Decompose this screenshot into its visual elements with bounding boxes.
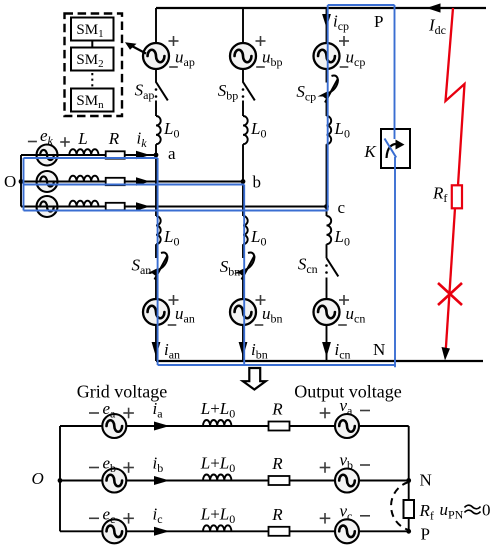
svg-text:ek: ek: [40, 126, 54, 148]
node a: [154, 153, 159, 158]
wire bp to coil: [242, 101, 244, 117]
inductor L grid a: [69, 149, 98, 155]
svg-text:ib: ib: [153, 454, 164, 476]
voltage source uap: [143, 43, 169, 69]
current arrow ib (bottom): [154, 476, 170, 485]
svg-text:eb: eb: [103, 454, 117, 476]
blue path breaker branch upper: [394, 5, 396, 139]
svg-text:ian: ian: [164, 340, 180, 362]
svg-text:Idc: Idc: [428, 16, 446, 38]
svg-text:L0: L0: [163, 227, 179, 249]
wire row a (bottom circuit): [60, 425, 409, 427]
resistor R row b: [269, 476, 290, 485]
svg-text:L0: L0: [334, 119, 350, 141]
wire switch to source cn: [326, 278, 328, 300]
svg-text:Sap: Sap: [135, 81, 155, 103]
blue path under phase a: [24, 157, 158, 159]
svg-text:Sbn: Sbn: [220, 257, 241, 279]
svg-text:ia: ia: [153, 399, 164, 421]
blue path breaker branch lower: [394, 157, 396, 367]
inductor L0 upper arm ap: [156, 116, 161, 144]
wire left rail (bottom circuit): [59, 426, 61, 531]
svg-text:ibn: ibn: [251, 340, 268, 362]
svg-text:P: P: [374, 12, 383, 31]
current arrow icp: [322, 14, 331, 28]
grid source eb: [37, 171, 58, 192]
breaker K box: [381, 129, 410, 168]
switch Sbn: [242, 257, 255, 280]
label uan with plus minus: [169, 299, 179, 301]
wire N bus bottom: [156, 360, 483, 362]
svg-text:ik: ik: [137, 129, 148, 151]
current arrow ia (bottom): [154, 422, 170, 431]
label ubn with plus minus: [256, 299, 266, 301]
grid source eb (bottom): [102, 469, 126, 493]
inductor L0 lower arm bn: [243, 216, 248, 244]
label -ea+: [89, 412, 99, 414]
blue breaker blade: [385, 139, 397, 158]
inductor L grid b: [69, 176, 98, 182]
inductor L+L0 row c: [203, 525, 231, 531]
voltage source ubp: [230, 43, 256, 69]
wire node to lower coil an: [155, 155, 157, 216]
svg-text:a: a: [168, 144, 176, 163]
inductor L0 upper arm cp: [327, 116, 332, 144]
svg-text:c: c: [338, 198, 346, 217]
label ucp with plus minus: [339, 40, 349, 42]
node P (bottom circuit): [406, 529, 411, 534]
label ucn with plus minus: [339, 299, 349, 301]
resistor R row a: [269, 422, 290, 431]
svg-text:Sbp: Sbp: [218, 81, 239, 103]
wire SM1-SM2: [91, 41, 93, 48]
wire row c (bottom circuit): [60, 530, 409, 532]
wire upper arm ap top: [155, 8, 157, 43]
svg-text:K: K: [363, 142, 377, 161]
breaker K closing arrow: [387, 144, 401, 158]
svg-text:b: b: [253, 173, 262, 192]
voltage source ucp: [314, 43, 340, 69]
fault arrowhead onto N bus: [442, 347, 451, 361]
inductor L+L0 row a: [203, 420, 231, 426]
voltage source ubn: [230, 299, 256, 325]
svg-text:vb: vb: [340, 451, 354, 473]
current arrow ic (bottom): [154, 527, 170, 536]
svg-text:ic: ic: [153, 504, 163, 526]
hollow transform arrow: [243, 368, 266, 390]
blue path under phase b: [24, 184, 245, 186]
fault branch red line with lightning kink: [446, 8, 465, 185]
svg-text:Scn: Scn: [298, 255, 318, 277]
svg-text:L+L0: L+L0: [200, 454, 236, 476]
switch Scp: [325, 80, 338, 103]
inductor L0 lower arm an: [156, 216, 161, 244]
label uap with plus minus: [169, 40, 179, 42]
current arrow Idc: [427, 3, 441, 12]
grid source ea (bottom): [102, 414, 126, 438]
svg-text:L0: L0: [250, 227, 266, 249]
svg-text:Scp: Scp: [296, 82, 316, 104]
svg-text:uap: uap: [175, 48, 195, 70]
node b: [241, 179, 246, 184]
blue path lower arm b: [243, 185, 245, 366]
svg-text:R: R: [271, 505, 283, 524]
label -eb+: [89, 467, 99, 469]
dotted continuation SM2..SMn: [91, 73, 93, 88]
arrow SM chain to source uap: [129, 45, 146, 54]
wire cp to coil: [326, 101, 328, 117]
output source va: [335, 414, 359, 438]
fault resistor Rf (red): [452, 185, 462, 208]
svg-text:R: R: [271, 454, 283, 473]
wire below source cp: [326, 69, 328, 83]
current arrow ibn: [239, 342, 248, 357]
wire coil to switch bn: [242, 244, 244, 258]
svg-text:Output voltage: Output voltage: [294, 382, 401, 402]
svg-text:L: L: [77, 129, 87, 148]
svg-text:Rf: Rf: [432, 184, 447, 206]
wire grid phase a: [21, 154, 156, 156]
blue path top edge: [328, 4, 395, 6]
svg-text:ucp: ucp: [346, 48, 366, 70]
blue path: grid loop left edge: [23, 158, 25, 211]
wire node to lower coil cn: [326, 207, 328, 217]
wire upper arm a to node a: [155, 144, 157, 155]
grid source ec: [37, 196, 58, 217]
svg-text:ea: ea: [103, 399, 117, 421]
node c: [324, 204, 329, 209]
blue path upper arm c: [327, 5, 329, 211]
wire upper arm c to node c: [326, 144, 328, 206]
svg-text:uPN: uPN: [440, 500, 464, 522]
svg-text:L+L0: L+L0: [200, 504, 236, 526]
output source vb: [335, 469, 359, 493]
current arrow icn: [322, 342, 331, 357]
svg-text:L0: L0: [163, 119, 179, 141]
wire coil to switch an: [155, 244, 157, 258]
inductor L grid c: [69, 201, 98, 207]
wire upper arm cp top: [326, 8, 328, 43]
svg-text:ubp: ubp: [262, 48, 283, 70]
svg-text:uan: uan: [175, 304, 195, 326]
wire coil to switch cn: [326, 244, 328, 258]
fault X mark: [438, 283, 462, 305]
svg-text:ubn: ubn: [262, 304, 283, 326]
inductor L0 lower arm cn: [327, 216, 332, 244]
node N (bottom circuit): [406, 478, 411, 483]
submodule SMn box: [71, 89, 114, 112]
wire source to N bus cn: [326, 325, 328, 361]
switch Sap: [156, 82, 168, 100]
svg-text:L0: L0: [334, 227, 350, 249]
resistor R grid b: [106, 178, 125, 185]
submodule SM2 box: [71, 48, 114, 71]
wire right rail (bottom circuit): [408, 426, 410, 531]
svg-text:R: R: [108, 129, 120, 148]
grid source ea: [37, 145, 58, 166]
current arrow phase c: [136, 202, 150, 211]
svg-text:O: O: [32, 469, 44, 488]
wire O vertical: [20, 155, 22, 207]
wire upper arm bp top: [242, 8, 244, 43]
resistor R grid a: [106, 151, 125, 158]
wire row b (bottom circuit): [60, 480, 409, 482]
svg-text:vc: vc: [340, 501, 353, 523]
svg-text:icn: icn: [335, 340, 351, 362]
wire source to N bus an: [155, 325, 157, 361]
current arrow phase b: [136, 177, 150, 186]
submodule chain dashed box: [65, 14, 123, 117]
label -ek+: [28, 141, 37, 143]
fault resistor Rf (bottom): [404, 500, 415, 518]
wire below source ap: [155, 69, 157, 83]
svg-text:O: O: [4, 172, 16, 191]
voltage source uan: [143, 299, 169, 325]
wire switch to source bn: [242, 278, 244, 300]
dashed fault arc N to P: [391, 482, 409, 530]
current arrow phase a: [136, 151, 150, 160]
wire source to N bus bn: [242, 325, 244, 361]
svg-text:San: San: [131, 256, 151, 278]
switch Sbp: [243, 82, 255, 100]
svg-text:icp: icp: [333, 12, 349, 34]
label +vb-: [320, 467, 331, 469]
switch Scn: [327, 258, 339, 276]
svg-text:ucn: ucn: [346, 304, 366, 326]
blue path lower arm a: [157, 158, 159, 365]
wire P bus top: [156, 7, 486, 9]
switch San: [155, 257, 168, 280]
blue path along N bus: [158, 364, 396, 366]
wire switch to source an: [155, 278, 157, 300]
svg-text:ec: ec: [103, 504, 116, 526]
inductor L0 upper arm bp: [243, 116, 248, 144]
label +vc-: [320, 517, 331, 519]
resistor R row c: [269, 527, 290, 536]
blue path under phase c: [24, 210, 328, 212]
current arrow ian: [152, 342, 161, 357]
label -ec+: [89, 517, 99, 519]
wire grid phase b: [21, 181, 243, 183]
label +va-: [320, 412, 331, 414]
label ubp with plus minus: [256, 40, 266, 42]
svg-text:L+L0: L+L0: [200, 399, 236, 421]
svg-text:L0: L0: [250, 119, 266, 141]
inductor L+L0 row b: [203, 475, 231, 481]
svg-text:N: N: [373, 340, 385, 359]
fault red line lower: [445, 208, 455, 357]
svg-text:R: R: [271, 400, 283, 419]
wire below source bp: [242, 69, 244, 83]
svg-text:Rf: Rf: [419, 501, 434, 523]
wire upper arm b to node b: [242, 144, 244, 181]
submodule SM1 box: [71, 18, 114, 41]
svg-text:0: 0: [482, 501, 491, 520]
svg-text:P: P: [421, 525, 430, 544]
output source vc: [335, 519, 359, 543]
svg-text:N: N: [420, 471, 432, 490]
wire ap to coil: [155, 101, 157, 117]
voltage source ucn: [314, 299, 340, 325]
grid source ec (bottom): [102, 519, 126, 543]
resistor R grid c: [106, 203, 125, 210]
wire node to lower coil bn: [242, 182, 244, 217]
wire grid phase c: [21, 206, 327, 208]
